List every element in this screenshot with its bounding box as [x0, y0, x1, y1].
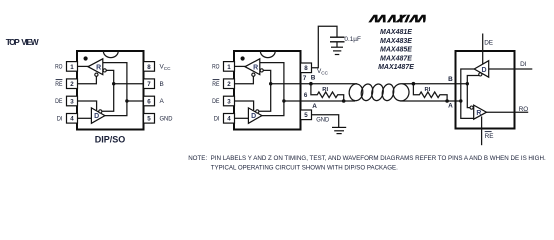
- svg-text:D: D: [481, 67, 486, 74]
- svg-text:RI: RI: [322, 87, 328, 93]
- wire RE enable: [481, 116, 483, 145]
- twisted pair cable: [348, 83, 363, 101]
- svg-text:1: 1: [227, 64, 231, 71]
- wire pin1 to R output: [78, 65, 89, 67]
- pin 7 box: [144, 79, 155, 89]
- pin 4 box: [224, 114, 235, 124]
- pin 4 box: [67, 114, 78, 124]
- wire DI to D input: [78, 117, 92, 119]
- svg-text:8: 8: [147, 64, 151, 71]
- wire node A to pin 6: [127, 100, 144, 102]
- driver D3 triangle: [474, 61, 489, 77]
- pin-1 dot: [84, 56, 88, 60]
- wire D output A to R bottom input: [461, 69, 474, 118]
- svg-text:1: 1: [70, 64, 74, 71]
- svg-text:7: 7: [147, 81, 151, 88]
- receiver R1 triangle: [88, 59, 103, 75]
- wire R bottom input to B vertical: [259, 70, 271, 111]
- svg-text:RE: RE: [485, 133, 494, 140]
- svg-text:RO: RO: [212, 64, 219, 71]
- pin 6 box: [144, 96, 155, 106]
- svg-text:DIP/SO: DIP/SO: [95, 134, 126, 144]
- driver D1 triangle: [91, 108, 105, 123]
- svg-text:7: 7: [303, 75, 307, 82]
- svg-text:A: A: [312, 103, 317, 110]
- IC package body U2: [234, 51, 301, 130]
- D inverting output bubble: [99, 110, 102, 113]
- ground under pin 5: [332, 126, 346, 128]
- junction dot on A: [459, 99, 462, 102]
- wire RE to R enable: [78, 76, 97, 83]
- wire net B top bus: [302, 83, 358, 85]
- wire DI input: [489, 68, 533, 70]
- pin-1 dot: [241, 56, 245, 60]
- svg-text:A: A: [160, 98, 165, 105]
- svg-text:DI: DI: [520, 61, 527, 68]
- svg-text:4: 4: [227, 116, 231, 123]
- svg-text:6: 6: [304, 92, 308, 99]
- pin 1 box: [67, 62, 78, 72]
- capacitor C1 0.1uF: [330, 36, 345, 38]
- R inverting input bubble: [470, 106, 473, 109]
- wire node B to pin 7 stub: [271, 83, 302, 85]
- svg-text:MAX1487E: MAX1487E: [378, 64, 414, 71]
- pin 8 box: [144, 62, 155, 72]
- svg-text:RO: RO: [519, 106, 529, 113]
- R enable bubble: [95, 73, 98, 76]
- R inverting input bubble: [260, 69, 263, 72]
- svg-text:DI: DI: [214, 116, 220, 123]
- IC package body U1: [77, 51, 144, 130]
- svg-text:TOPVIEW: TOPVIEW: [6, 37, 39, 47]
- pin 2 box: [224, 79, 235, 89]
- pin 2 box: [67, 79, 78, 89]
- svg-text:B: B: [311, 74, 316, 81]
- svg-text:2: 2: [227, 81, 231, 88]
- svg-text:R: R: [96, 65, 101, 72]
- resistor RI left termination: [311, 84, 344, 101]
- svg-text:4: 4: [70, 116, 74, 123]
- package notch: [103, 51, 118, 57]
- R enable bubble: [252, 73, 255, 76]
- wire R top input to A vertical: [260, 63, 284, 116]
- svg-text:6: 6: [147, 98, 151, 105]
- wire net A bottom bus: [302, 100, 356, 102]
- svg-text:B: B: [448, 76, 453, 83]
- wire capacitor to ground: [336, 42, 338, 47]
- svg-text:DE: DE: [484, 40, 493, 47]
- junction node B: [269, 82, 272, 85]
- pin 8 box: [301, 63, 312, 73]
- svg-text:5: 5: [304, 112, 308, 119]
- junction node A: [282, 99, 285, 102]
- svg-text:RE: RE: [212, 81, 219, 88]
- svg-text:B: B: [160, 81, 164, 88]
- wire R bottom input to B vertical: [102, 70, 114, 111]
- ground under capacitor: [331, 46, 343, 48]
- pin 3 box: [224, 96, 235, 106]
- svg-text:3: 3: [227, 98, 231, 105]
- junction dot B left: [309, 82, 313, 86]
- svg-text:5: 5: [147, 116, 151, 123]
- resistor RI right termination: [413, 84, 447, 101]
- wire DE enable: [482, 34, 484, 65]
- pin 3 box: [67, 96, 78, 106]
- D inverting output bubble: [479, 73, 482, 76]
- svg-text:MAX483E: MAX483E: [380, 38, 412, 45]
- pin 1 box: [224, 62, 235, 72]
- transceiver box U3: [456, 51, 515, 129]
- svg-text:DE: DE: [55, 98, 62, 105]
- svg-text:R: R: [476, 110, 481, 117]
- svg-text:D: D: [94, 113, 99, 120]
- wire pin 5 to ground: [312, 115, 339, 128]
- svg-text:MAX485E: MAX485E: [380, 47, 412, 54]
- svg-text:DE: DE: [212, 98, 219, 105]
- svg-text:NOTE: PIN LABELS Y AND Z ON T: NOTE: PIN LABELS Y AND Z ON TIMING, TEST…: [188, 155, 546, 162]
- pin 5 box: [301, 110, 312, 120]
- wire D inverting output B to R inverting input: [467, 76, 479, 108]
- D inverting output bubble: [256, 110, 259, 113]
- receiver R3 triangle: [474, 105, 487, 119]
- svg-text:A: A: [448, 103, 453, 110]
- wire RO output: [487, 111, 529, 113]
- svg-text:MAX481E: MAX481E: [380, 29, 412, 36]
- svg-text:VCC: VCC: [160, 64, 172, 71]
- svg-text:3: 3: [70, 98, 74, 105]
- driver D2 triangle: [248, 108, 262, 123]
- svg-text:TYPICAL OPERATING CIRCUIT SHOW: TYPICAL OPERATING CIRCUIT SHOWN WITH DIP…: [211, 165, 398, 172]
- svg-text:RE: RE: [55, 81, 62, 88]
- wire R top input to A vertical: [103, 63, 127, 116]
- junction dot A right: [445, 99, 449, 103]
- svg-text:2: 2: [70, 81, 74, 88]
- svg-text:RI: RI: [425, 87, 431, 93]
- junction node A: [125, 99, 128, 102]
- wire node B to pin 7: [114, 83, 144, 85]
- svg-text:8: 8: [304, 65, 308, 72]
- svg-text:GND: GND: [160, 116, 173, 123]
- svg-text:MAX487E: MAX487E: [380, 55, 412, 62]
- wire DE to D enable: [78, 101, 97, 110]
- receiver R2 triangle: [245, 59, 260, 75]
- junction dot A left: [342, 99, 346, 103]
- svg-text:DI: DI: [57, 116, 63, 123]
- wire node A to pin 6 stub: [284, 100, 302, 102]
- wire RE to R enable: [235, 76, 254, 83]
- package notch: [260, 51, 275, 57]
- svg-text:RO: RO: [55, 64, 62, 71]
- junction node B: [112, 82, 115, 85]
- R inverting input bubble: [103, 69, 106, 72]
- junction dot on B: [466, 82, 469, 85]
- pin 5 box: [144, 114, 155, 124]
- svg-text:0.1µF: 0.1µF: [344, 36, 361, 43]
- wire DE to D enable: [235, 101, 254, 110]
- wire DI to D input: [235, 117, 249, 119]
- junction dot B right: [412, 82, 416, 86]
- svg-text:R: R: [253, 65, 258, 72]
- svg-text:D: D: [251, 113, 256, 120]
- wire pin1 to R output: [235, 65, 246, 67]
- svg-text:VCC: VCC: [317, 68, 329, 75]
- svg-text:GND: GND: [316, 117, 329, 124]
- wire VCC from pin 8: [312, 26, 338, 68]
